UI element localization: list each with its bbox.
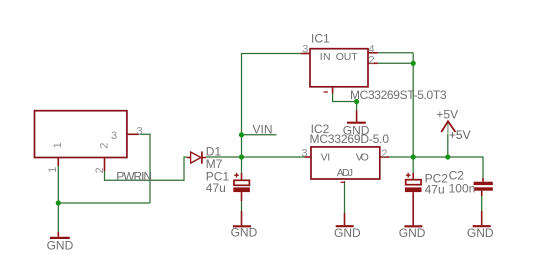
svg-text:PWRIN: PWRIN bbox=[116, 170, 152, 184]
svg-text:C2: C2 bbox=[449, 169, 465, 183]
svg-text:OUT: OUT bbox=[336, 51, 359, 63]
svg-text:1: 1 bbox=[52, 142, 64, 148]
svg-text:2: 2 bbox=[369, 55, 375, 67]
svg-text:MC33269ST-5.0T3: MC33269ST-5.0T3 bbox=[350, 88, 447, 102]
svg-text:2: 2 bbox=[381, 148, 387, 160]
svg-text:47u: 47u bbox=[206, 181, 226, 195]
svg-text:GND: GND bbox=[231, 226, 258, 240]
svg-text:GND: GND bbox=[334, 226, 361, 240]
svg-text:VIN: VIN bbox=[253, 122, 273, 136]
svg-text:3: 3 bbox=[111, 130, 117, 142]
svg-text:100n: 100n bbox=[449, 182, 476, 196]
svg-text:3: 3 bbox=[302, 44, 308, 56]
svg-text:GND: GND bbox=[47, 238, 74, 252]
svg-text:1: 1 bbox=[47, 167, 59, 173]
svg-text:MC33269D-5.0: MC33269D-5.0 bbox=[310, 132, 390, 146]
svg-text:IN: IN bbox=[320, 51, 331, 63]
svg-text:ADJ: ADJ bbox=[337, 167, 353, 179]
svg-text:3: 3 bbox=[301, 148, 307, 160]
svg-text:2: 2 bbox=[94, 167, 106, 173]
svg-text:VO: VO bbox=[356, 152, 369, 164]
svg-text:3: 3 bbox=[137, 125, 143, 137]
svg-text:GND: GND bbox=[467, 226, 494, 240]
svg-text:IC1: IC1 bbox=[311, 32, 330, 46]
svg-text:2: 2 bbox=[99, 143, 111, 149]
svg-text:VI: VI bbox=[321, 152, 331, 164]
svg-text:+5V: +5V bbox=[436, 108, 458, 122]
svg-text:GND: GND bbox=[399, 226, 426, 240]
svg-text:47u: 47u bbox=[425, 183, 445, 197]
svg-text:+5V: +5V bbox=[449, 128, 471, 142]
